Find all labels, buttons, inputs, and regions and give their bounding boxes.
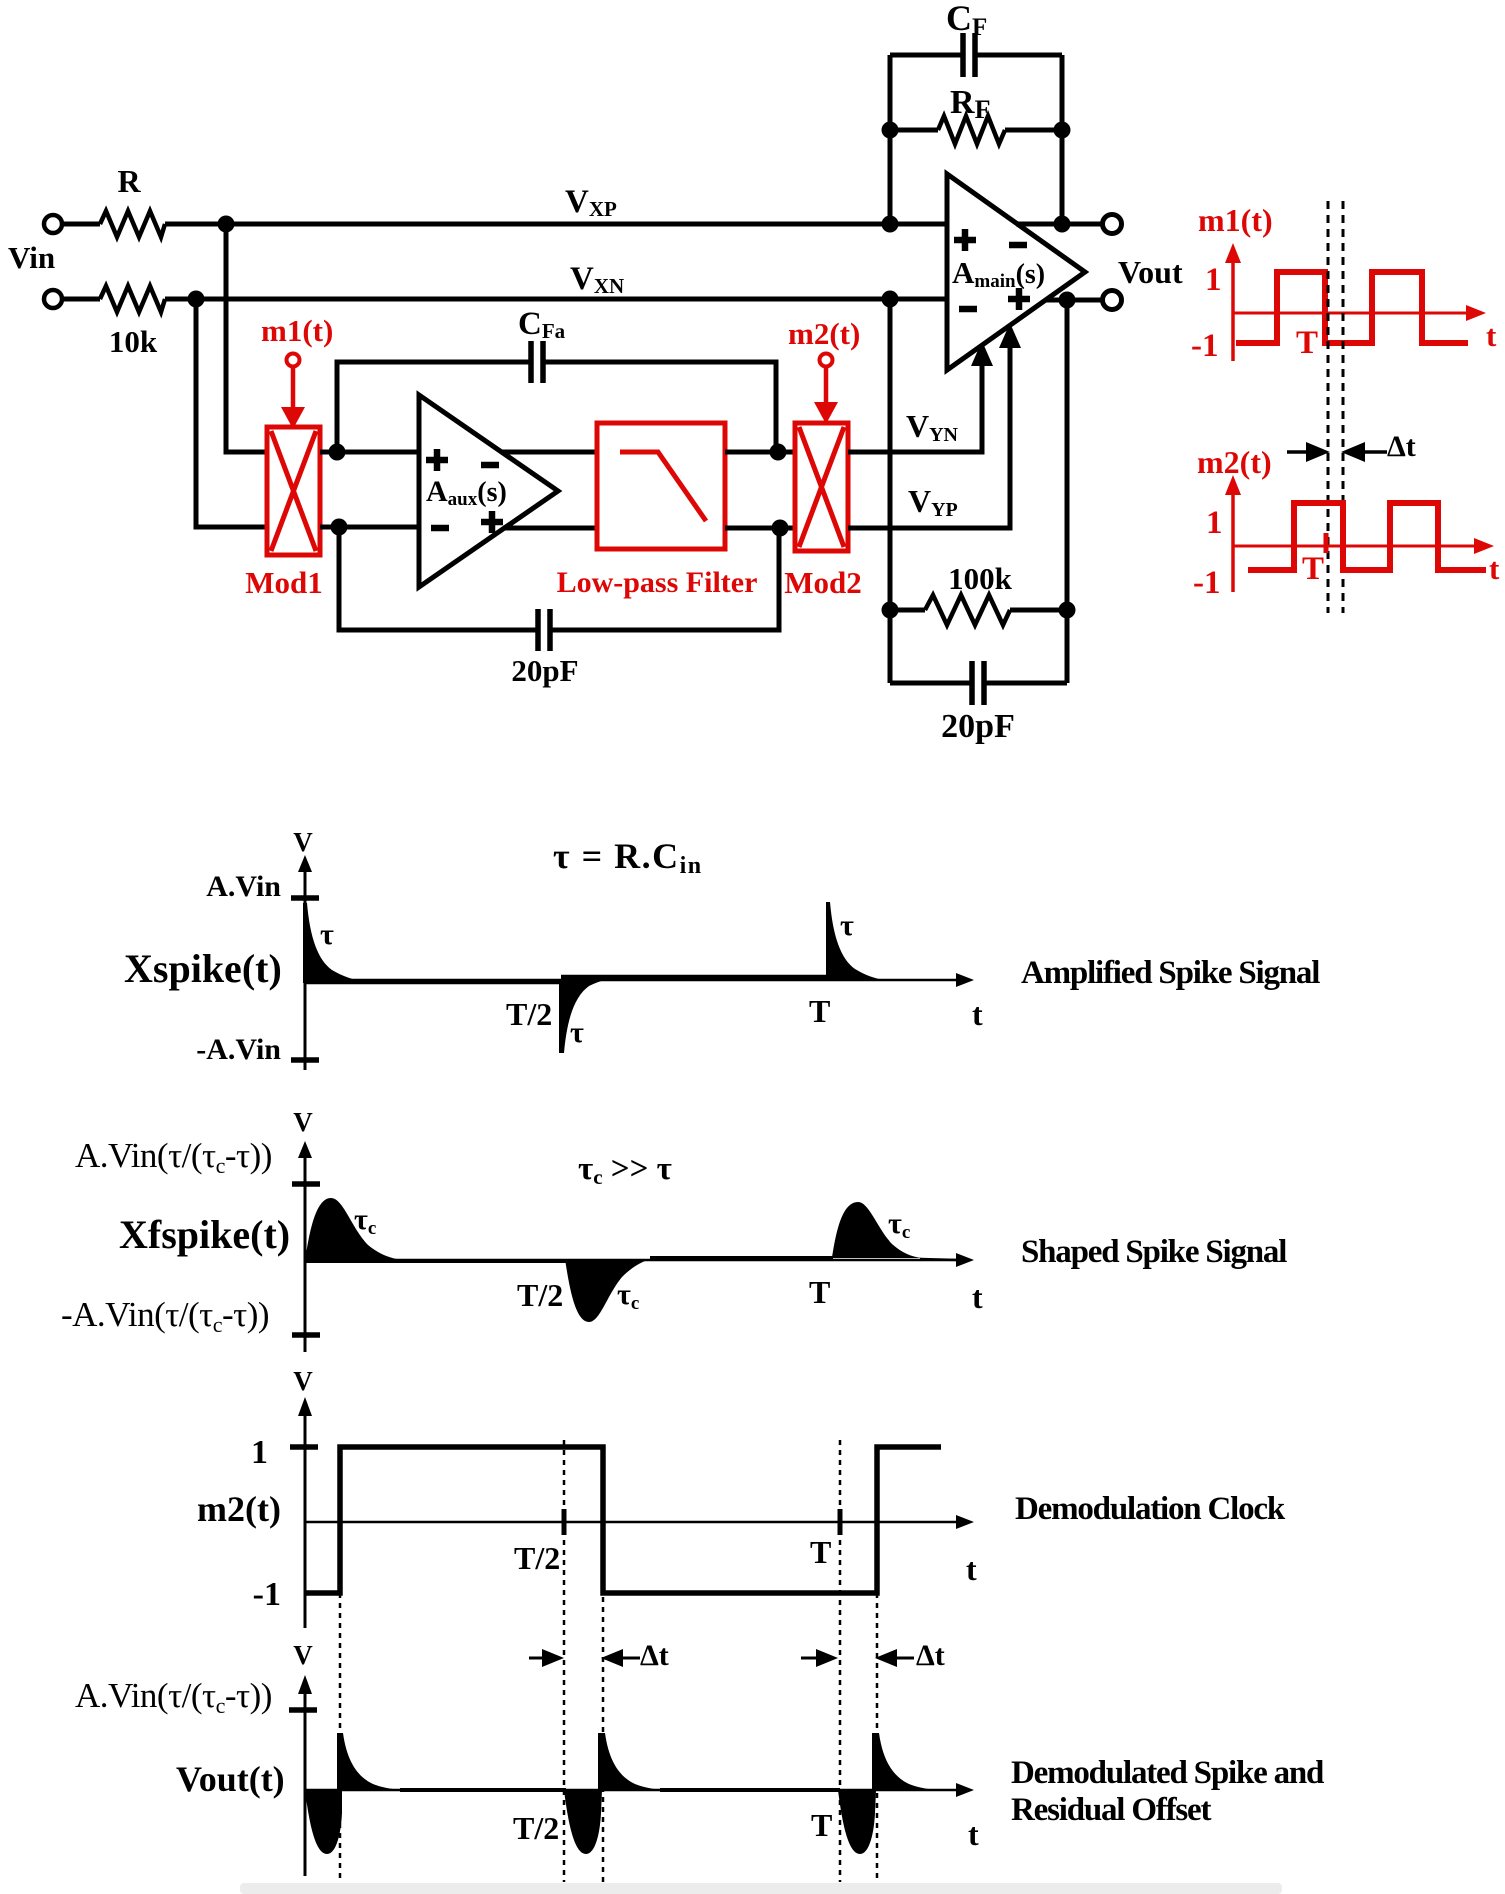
capacitor 20pF aux xyxy=(535,609,541,651)
dashed delta-t line left xyxy=(1327,201,1330,613)
svg-text:V: V xyxy=(293,1107,313,1137)
plot4 delta-t arrows pair 2 xyxy=(801,1657,824,1660)
node Mod1 out bottom xyxy=(331,519,348,536)
wire 100k 20pF right vertical xyxy=(1065,300,1070,683)
svg-text:Low-pass Filter: Low-pass Filter xyxy=(557,566,758,599)
wire Amain out top xyxy=(1016,222,1103,227)
capacitor 20pF main xyxy=(969,661,975,705)
resistor 100k xyxy=(890,608,925,613)
capacitor 20pF aux feedback wires xyxy=(339,527,538,630)
svg-text:Mod2: Mod2 xyxy=(784,565,862,600)
svg-text:1: 1 xyxy=(251,1434,268,1471)
node VXN feedback xyxy=(882,291,899,308)
plot2 baseline 1 xyxy=(305,1259,566,1263)
node out bottom xyxy=(1059,292,1076,309)
svg-text:Vout(t): Vout(t) xyxy=(176,1759,285,1799)
svg-text:m1(t): m1(t) xyxy=(1198,202,1273,238)
svg-text:T: T xyxy=(1302,551,1324,587)
svg-text:t: t xyxy=(1486,318,1497,353)
wire VYP to Amain xyxy=(848,346,1010,528)
dashed line at rise T xyxy=(876,1593,879,1882)
svg-text:τ: τ xyxy=(570,1016,584,1049)
svg-text:Vin: Vin xyxy=(8,240,55,275)
dashed line at T xyxy=(839,1440,842,1882)
svg-text:1: 1 xyxy=(1206,505,1223,541)
plot4 lobe and spike at 0 xyxy=(305,1790,342,1854)
node 100k right xyxy=(1059,602,1076,619)
clock arrow into Mod2 xyxy=(824,367,829,404)
svg-text:V: V xyxy=(293,1366,313,1396)
m2 x-axis xyxy=(1233,545,1478,548)
wire VXN line xyxy=(165,297,947,302)
resistor RF xyxy=(890,128,938,133)
plot2 x-axis xyxy=(305,1259,960,1262)
output terminal bottom xyxy=(1103,291,1122,310)
modulator Mod1 xyxy=(267,427,320,555)
plot4 x-axis xyxy=(305,1789,960,1792)
node 100k left xyxy=(882,602,899,619)
m2 tick T xyxy=(1324,533,1329,553)
svg-text:Xspike(t): Xspike(t) xyxy=(124,946,282,991)
modulator Mod2 xyxy=(795,423,848,551)
wire CF RF left vertical xyxy=(888,55,893,224)
node VXN tap xyxy=(188,291,205,308)
plot2 bump at 0 xyxy=(305,1198,404,1261)
resistor 10k xyxy=(100,286,165,312)
wire CF RF right vertical xyxy=(1060,55,1065,224)
svg-text:V: V xyxy=(293,1640,313,1670)
node out top xyxy=(1054,216,1071,233)
svg-text:Xfspike(t): Xfspike(t) xyxy=(119,1212,290,1257)
wire Aaux out top to LPF xyxy=(502,450,597,455)
svg-text:Δt: Δt xyxy=(640,1639,669,1672)
svg-text:T/2: T/2 xyxy=(517,1277,563,1313)
dashed line at rise 0 xyxy=(339,1593,342,1882)
svg-text:V: V xyxy=(293,827,313,857)
svg-text:-A.Vin(τ/(τc-τ)): -A.Vin(τ/(τc-τ)) xyxy=(61,1295,269,1337)
plot4 tick xyxy=(289,1707,317,1713)
scrollbar artifact xyxy=(240,1883,1282,1894)
plot2 tick bottom xyxy=(292,1332,320,1338)
wire VXP tap down to Mod1 xyxy=(226,224,267,452)
plot3 tick T/2 xyxy=(562,1509,567,1535)
wire Amain out bottom xyxy=(1045,298,1103,303)
svg-text:A.Vin(τ/(τc-τ)): A.Vin(τ/(τc-τ)) xyxy=(75,1136,272,1178)
plot1 offset segment 1 xyxy=(305,980,562,985)
svg-text:100k: 100k xyxy=(948,561,1013,596)
svg-text:Δt: Δt xyxy=(916,1639,945,1672)
wire VXN tap down to Mod1 xyxy=(196,299,267,527)
low-pass filter block xyxy=(597,423,725,549)
svg-text:Demodulation Clock: Demodulation Clock xyxy=(1015,1491,1286,1527)
svg-text:Residual Offset: Residual Offset xyxy=(1011,1792,1211,1828)
capacitor CFa feedback wires xyxy=(337,362,531,452)
input terminal Vin- xyxy=(44,290,62,308)
svg-text:1: 1 xyxy=(1205,262,1222,298)
svg-text:t: t xyxy=(966,1551,977,1587)
dashed delta-t line right xyxy=(1342,201,1345,613)
svg-text:Amplified Spike Signal: Amplified Spike Signal xyxy=(1021,955,1320,991)
output terminal top xyxy=(1103,215,1122,234)
node VXP tap xyxy=(218,216,235,233)
capacitor CF wires xyxy=(890,53,963,58)
plot2 bump at T/2 xyxy=(565,1259,652,1322)
dashed line at T/2 xyxy=(563,1440,566,1882)
svg-text:-1: -1 xyxy=(1193,565,1221,601)
svg-text:t: t xyxy=(972,996,983,1032)
capacitor CFa xyxy=(528,341,534,383)
svg-text:T/2: T/2 xyxy=(514,1540,560,1576)
svg-text:τ: τ xyxy=(840,909,854,942)
node LPF out bottom xyxy=(772,520,789,537)
svg-text:m2(t): m2(t) xyxy=(197,1489,281,1529)
plot4 delta-t arrows pair 1 xyxy=(529,1657,550,1660)
svg-text:-A.Vin: -A.Vin xyxy=(196,1033,281,1066)
svg-text:-1: -1 xyxy=(1191,328,1219,364)
plot4 baseline 2 xyxy=(660,1788,840,1792)
resistor R xyxy=(100,211,165,237)
node Mod1 out top xyxy=(329,444,346,461)
plot2 tick top xyxy=(292,1181,320,1187)
capacitor CF xyxy=(960,33,966,77)
plot2 axis tail xyxy=(920,1259,958,1260)
svg-text:T: T xyxy=(1296,325,1318,361)
svg-text:t: t xyxy=(968,1816,979,1852)
svg-text:-1: -1 xyxy=(253,1576,281,1613)
input terminal Vin+ xyxy=(44,215,62,233)
svg-text:t: t xyxy=(1489,551,1500,586)
svg-text:T/2: T/2 xyxy=(513,1810,559,1846)
plot4 lobe and spike at T/2 xyxy=(564,1790,602,1854)
svg-text:τ: τ xyxy=(320,918,334,951)
wire VYN to Amain xyxy=(848,364,982,452)
svg-text:A.Vin(τ/(τc-τ)): A.Vin(τ/(τc-τ)) xyxy=(75,1676,272,1718)
wire LPF to Mod2 bottom xyxy=(725,526,795,531)
svg-text:T: T xyxy=(811,1807,832,1843)
m1 x-axis xyxy=(1233,312,1470,315)
svg-text:Demodulated Spike and: Demodulated Spike and xyxy=(1011,1755,1324,1791)
m1 square wave xyxy=(1236,272,1468,343)
node RF right xyxy=(1054,122,1071,139)
plot1 tick A.Vin xyxy=(291,895,319,901)
plot2 bump at T xyxy=(832,1202,922,1258)
delta-t dimension arrows xyxy=(1287,450,1315,454)
node RF left xyxy=(882,122,899,139)
plot3 tick +1 xyxy=(290,1444,318,1450)
terminal m1 xyxy=(287,354,300,367)
svg-text:m2(t): m2(t) xyxy=(1197,444,1272,480)
svg-text:20pF: 20pF xyxy=(941,708,1015,745)
plot3 square wave xyxy=(305,1447,941,1593)
svg-text:T: T xyxy=(809,1274,830,1310)
svg-text:τc >> τ: τc >> τ xyxy=(578,1151,672,1189)
svg-text:Shaped Spike Signal: Shaped Spike Signal xyxy=(1021,1234,1287,1270)
svg-text:Δt: Δt xyxy=(1387,430,1416,463)
svg-text:T/2: T/2 xyxy=(506,996,552,1032)
capacitor 20pF main wires xyxy=(890,681,972,686)
svg-text:m1(t): m1(t) xyxy=(261,313,333,348)
plot1 spike at T/2 xyxy=(559,976,621,1053)
svg-text:T: T xyxy=(809,993,830,1029)
wire Aaux out bottom to LPF xyxy=(503,526,597,531)
wire LPF to Mod2 top xyxy=(725,450,795,455)
plot1 x-axis xyxy=(305,979,960,982)
svg-text:Mod1: Mod1 xyxy=(245,565,323,600)
m1 y-axis xyxy=(1231,258,1235,361)
m2 square wave xyxy=(1248,503,1486,570)
clock arrow into Mod1 xyxy=(291,367,296,409)
svg-text:R: R xyxy=(117,163,141,199)
plot3 x-axis xyxy=(305,1521,960,1524)
svg-text:Vout: Vout xyxy=(1118,254,1183,290)
m2 y-axis xyxy=(1231,490,1235,592)
plot4 lobe and spike at T xyxy=(838,1790,876,1854)
op-amp Aaux U1 xyxy=(419,395,558,587)
plot1 spike at T xyxy=(826,902,886,981)
svg-text:20pF: 20pF xyxy=(511,653,578,688)
plot4 baseline 1 xyxy=(400,1788,566,1792)
svg-text:A.Vin: A.Vin xyxy=(206,870,281,903)
wire 100k 20pF left vertical xyxy=(888,299,893,683)
node LPF out top xyxy=(770,444,787,461)
terminal m2 xyxy=(820,354,833,367)
svg-text:10k: 10k xyxy=(109,324,158,359)
plot1 tick -A.Vin xyxy=(291,1057,319,1063)
wire VXP line xyxy=(165,222,947,227)
svg-text:T: T xyxy=(810,1534,831,1570)
plot1 spike at 0 xyxy=(303,903,366,983)
wire xyxy=(62,222,100,227)
wire Mod1 to Aaux top xyxy=(320,450,419,455)
plot3 tick T xyxy=(838,1509,843,1535)
dashed line at fall xyxy=(602,1447,605,1882)
svg-text:m2(t): m2(t) xyxy=(788,316,860,351)
node VXP feedback xyxy=(882,216,899,233)
wire xyxy=(62,297,100,302)
svg-text:t: t xyxy=(972,1279,983,1315)
plot1 offset segment 2 xyxy=(561,975,829,980)
plot2 baseline 2 xyxy=(650,1256,833,1260)
op-amp Amain U2 xyxy=(947,174,1085,370)
wire Mod1 to Aaux bottom xyxy=(320,525,419,530)
